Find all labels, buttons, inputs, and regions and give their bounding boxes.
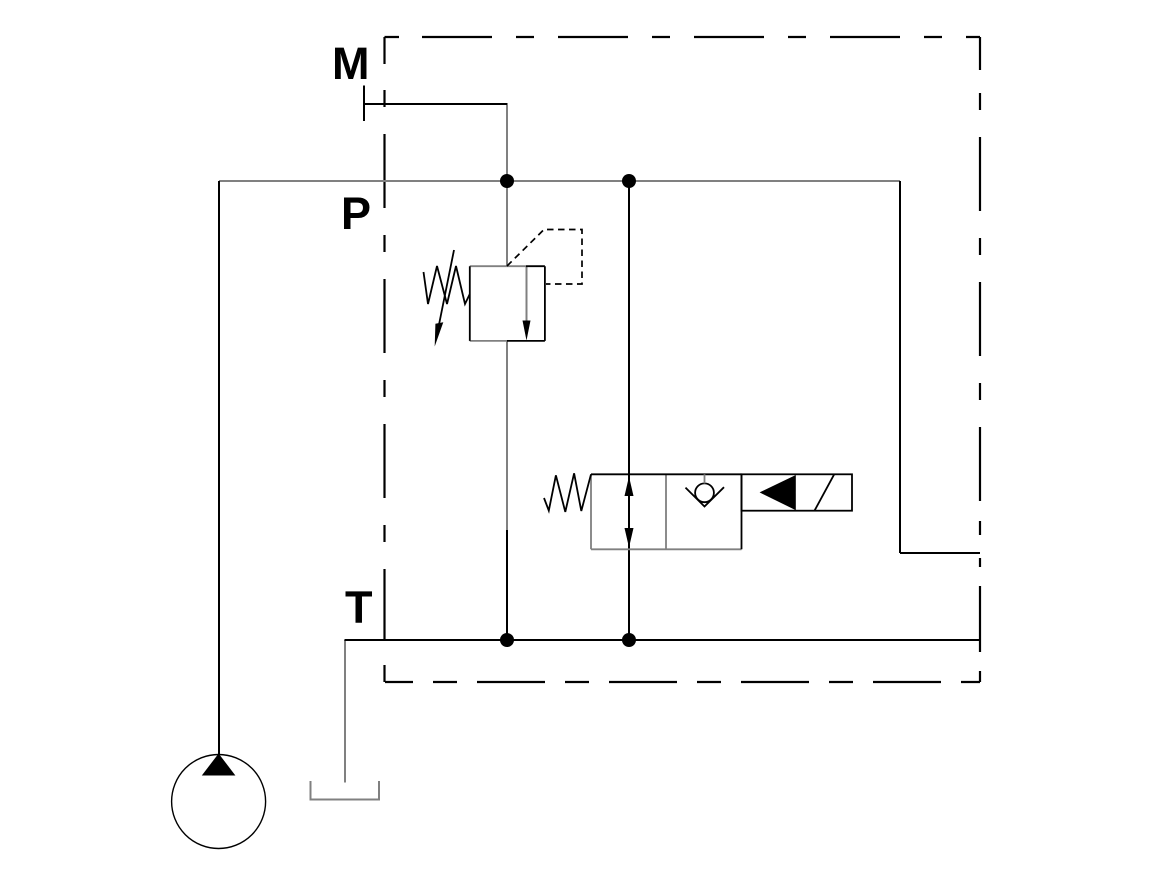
svg-text:P: P bbox=[341, 188, 371, 239]
svg-text:M: M bbox=[332, 38, 370, 89]
svg-text:T: T bbox=[345, 582, 373, 633]
